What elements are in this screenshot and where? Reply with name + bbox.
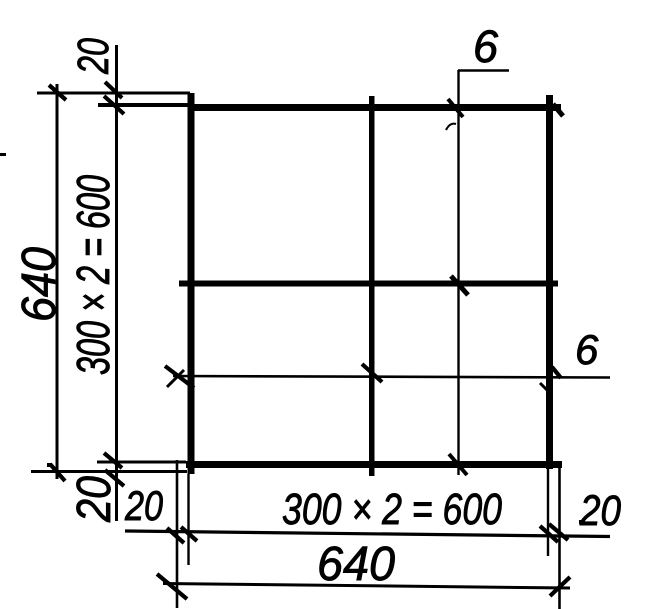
tick at 20-line top bar (104, 96, 124, 114)
svg-text:6: 6 (473, 21, 499, 72)
tick at 640-line top (49, 85, 66, 100)
dimension line 640 left vertical (56, 84, 59, 479)
horizontal bar H1 (top) (190, 104, 561, 111)
vertical bar V3 (right) (546, 95, 553, 469)
svg-text:300 × 2 = 600: 300 × 2 = 600 (282, 485, 502, 534)
tick at 20-line top edge (105, 82, 122, 98)
horizontal bar H3 left thin extension (97, 461, 186, 464)
extension line bottom edge (31, 470, 187, 473)
arrow mark leader at V1 (165, 366, 194, 388)
tick at 600-line bottom bar (104, 453, 122, 468)
dimension line 640 bottom horizontal (163, 584, 570, 589)
double tick bottom dim line left b (181, 527, 197, 541)
extension line below right bar x559 (558, 466, 561, 609)
svg-text:640: 640 (13, 247, 66, 322)
vertical bar V1 (left) (188, 93, 195, 474)
tick at 640 bottom line left (157, 574, 187, 599)
tick at 640-line bottom (50, 464, 65, 481)
svg-text:300 × 2 = 600: 300 × 2 = 600 (67, 175, 119, 375)
svg-text:6: 6 (575, 326, 599, 373)
arrow mark leader at H2 (451, 276, 468, 295)
horizontal bar H3 (bottom) (186, 461, 562, 468)
tick at 20-line bottom edge (105, 470, 124, 486)
leader line horizontal for right label 6 (173, 376, 610, 378)
dimension line 300x2=600 bottom horizontal (125, 531, 610, 537)
arrow mark leader at V2 (362, 364, 382, 382)
svg-text:20: 20 (68, 476, 121, 523)
svg-text:20: 20 (69, 38, 118, 75)
horizontal bar H1 left extension (98, 103, 190, 107)
double tick bottom dim line left a (167, 528, 184, 543)
svg-text:640: 640 (317, 538, 395, 591)
stray dash at left edge (0, 153, 6, 156)
extension line below left bar x188 (187, 474, 189, 565)
vertical bar V2 (middle) (369, 96, 375, 476)
leader line vertical for top label 6 (457, 70, 459, 475)
arrow mark leader at H3 (449, 454, 467, 475)
tick at 640 bottom line right (550, 577, 570, 596)
stray dot near 640-line bottom tick (47, 463, 52, 467)
curl mark below H1 arrow (446, 124, 456, 130)
leader line horizontal shelf of top label 6 (458, 69, 509, 72)
double tick bottom dim line right a (540, 526, 558, 542)
blob at top bar right end (553, 104, 563, 116)
arrow mark leader at V1 cross (167, 370, 184, 387)
extension line top edge (37, 92, 190, 95)
double tick bottom dim line right b (549, 524, 568, 540)
extension line below left bar x177 (176, 460, 179, 608)
arrow mark leader at V3 (552, 367, 561, 378)
stray dot right of bottom right corner (579, 520, 583, 524)
dimension line 300x2=600 left vertical (115, 45, 118, 521)
extension line below right bar x548 (547, 469, 549, 556)
svg-text:20: 20 (579, 487, 621, 535)
arrow mark leader at V3 second (540, 383, 550, 393)
horizontal bar H2 (middle) (179, 281, 558, 287)
arrow mark leader at H1 (448, 99, 463, 117)
svg-text:20: 20 (124, 482, 163, 529)
